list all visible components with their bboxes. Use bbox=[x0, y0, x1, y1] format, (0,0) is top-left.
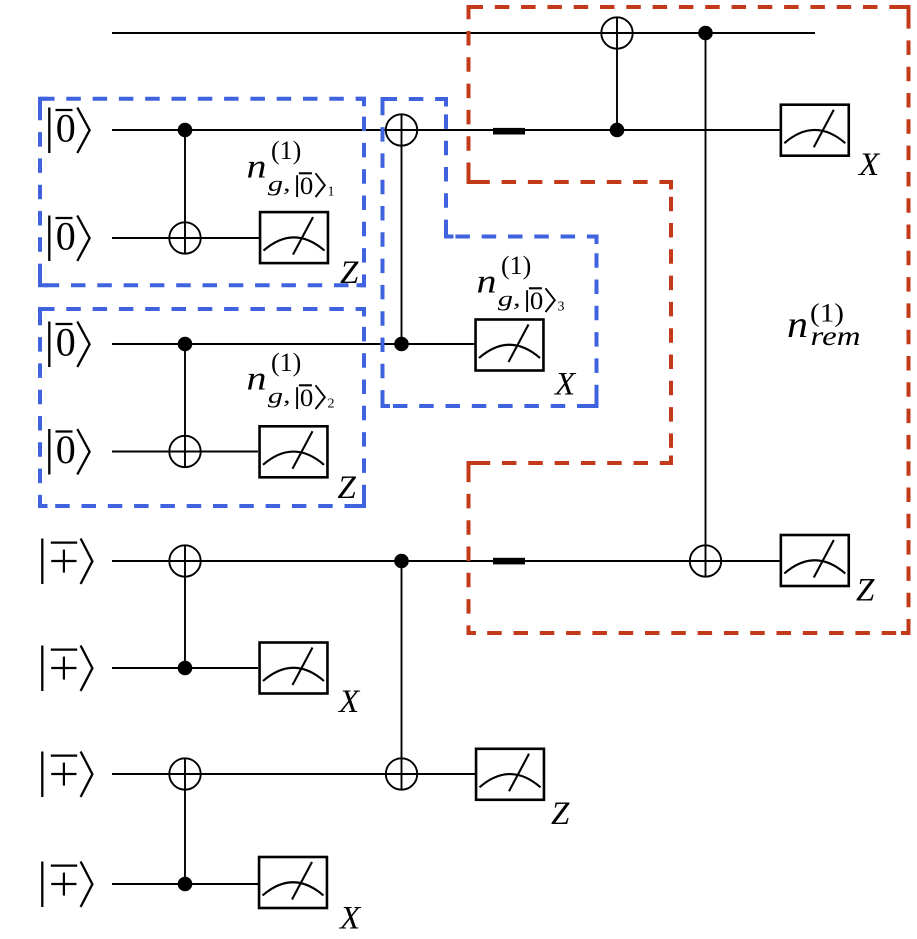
wire q3 bbox=[112, 343, 475, 345]
svg-text:X: X bbox=[857, 147, 881, 183]
control dot on q1 bbox=[178, 123, 193, 138]
red dashed box n_rem bbox=[469, 7, 909, 633]
ket |+> q7 bbox=[42, 752, 92, 798]
wire CNOT5 q0->q5 bbox=[705, 33, 707, 577]
label n_rem bbox=[787, 298, 861, 351]
CNOT target on q0 bbox=[601, 17, 632, 48]
svg-text:3: 3 bbox=[558, 300, 565, 315]
ket |0> q1 bbox=[49, 105, 89, 153]
wire CNOT1 q1->q2 bbox=[184, 130, 186, 254]
meter M7 on q7 bbox=[476, 749, 544, 800]
CNOT target on q7 (from q5) bbox=[386, 758, 417, 789]
wire q2 bbox=[112, 237, 259, 239]
svg-text:2: 2 bbox=[328, 397, 335, 412]
svg-text:n: n bbox=[477, 264, 497, 301]
CNOT target on q2 bbox=[169, 222, 200, 253]
svg-text:Z: Z bbox=[551, 796, 570, 832]
CNOT target on q5 (from q0) bbox=[690, 545, 721, 576]
wire q8 bbox=[112, 883, 258, 885]
ket |+> q5 bbox=[42, 539, 92, 585]
meter M4 on q4 bbox=[260, 426, 328, 477]
meter M5 on q5 bbox=[781, 535, 849, 586]
wire CNOT3 q3->q1 bbox=[401, 114, 403, 344]
svg-text:0: 0 bbox=[56, 427, 76, 472]
CNOT target on q5 bbox=[169, 545, 200, 576]
wire CNOT8 q8->q7 bbox=[184, 758, 186, 884]
blue box 3 corner marks bbox=[383, 99, 597, 406]
svg-text:(1): (1) bbox=[501, 251, 531, 280]
meter M8 on q8 bbox=[259, 857, 327, 908]
label n_g3 bbox=[477, 251, 565, 315]
tick on q5 bbox=[493, 558, 525, 565]
control dot on q3 (to q1) bbox=[394, 337, 409, 352]
svg-text:g,: g, bbox=[498, 286, 521, 311]
svg-text:rem: rem bbox=[811, 321, 861, 351]
svg-text:g,: g, bbox=[268, 383, 291, 408]
ket |0> q2 bbox=[49, 213, 89, 261]
meter M6 on q6 bbox=[260, 643, 328, 694]
CNOT target on q1 bbox=[386, 114, 417, 145]
svg-text:n: n bbox=[247, 361, 267, 398]
blue dashed box group 1 bbox=[40, 99, 364, 286]
control dot on q0 bbox=[698, 26, 713, 41]
svg-text:(1): (1) bbox=[271, 348, 301, 377]
svg-text:0: 0 bbox=[56, 213, 76, 258]
control dot on q3 bbox=[178, 337, 193, 352]
wire q0 (top ancilla) bbox=[112, 32, 815, 34]
svg-text:1: 1 bbox=[328, 185, 335, 200]
label n_g2 bbox=[247, 348, 335, 412]
red box corner marks bbox=[469, 7, 909, 633]
blue box 2 corner marks bbox=[40, 309, 364, 506]
wire q5 bbox=[112, 560, 780, 562]
svg-text:0: 0 bbox=[530, 288, 543, 315]
wire CNOT2 q3->q4 bbox=[184, 344, 186, 468]
meter M2 on q2 bbox=[260, 212, 328, 263]
svg-text:Z: Z bbox=[856, 573, 875, 609]
control dot on q6 bbox=[178, 661, 193, 676]
wire q4 bbox=[112, 451, 258, 453]
svg-text:Z: Z bbox=[338, 470, 357, 506]
control dot on q5 bbox=[394, 554, 409, 569]
CNOT target on q4 bbox=[169, 436, 200, 467]
svg-text:X: X bbox=[337, 684, 361, 720]
svg-text:n: n bbox=[787, 304, 808, 346]
wire q6 bbox=[112, 667, 258, 669]
svg-text:0: 0 bbox=[300, 385, 313, 412]
meter M3 on q3 bbox=[476, 320, 544, 371]
wire CNOT4 q1->q0 bbox=[616, 17, 618, 130]
ket |+> q6 bbox=[42, 646, 92, 692]
label n_g1 bbox=[247, 136, 335, 200]
svg-text:n: n bbox=[247, 149, 267, 186]
control dot on q8 bbox=[178, 877, 193, 892]
svg-text:0: 0 bbox=[300, 173, 313, 200]
wire CNOT7 q5->q7 bbox=[401, 561, 403, 790]
blue box 1 corner marks bbox=[40, 99, 364, 286]
svg-text:X: X bbox=[338, 901, 362, 937]
ket |0> q3 bbox=[49, 319, 89, 367]
svg-text:g,: g, bbox=[268, 171, 291, 196]
meter M1 on q1 bbox=[781, 105, 849, 156]
tick on q1 bbox=[493, 128, 525, 135]
ket |+> q8 bbox=[42, 862, 92, 908]
control dot on q1 (to q0) bbox=[610, 123, 625, 138]
svg-text:0: 0 bbox=[56, 105, 76, 150]
blue dashed box group 2 bbox=[40, 309, 364, 506]
CNOT target on q7 bbox=[169, 758, 200, 789]
wire CNOT6 q6->q5 bbox=[184, 545, 186, 668]
ket |0> q4 bbox=[49, 427, 89, 475]
blue dashed box group 3 bbox=[383, 99, 597, 406]
svg-text:(1): (1) bbox=[271, 136, 301, 165]
wire q7 bbox=[112, 773, 475, 775]
svg-text:0: 0 bbox=[56, 319, 76, 364]
wire q1 bbox=[112, 129, 780, 131]
svg-text:X: X bbox=[553, 367, 577, 403]
